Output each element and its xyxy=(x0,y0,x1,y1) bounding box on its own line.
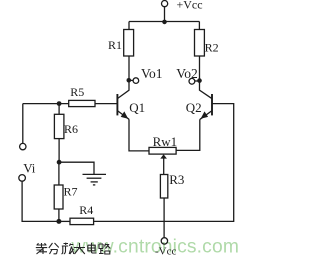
svg-text:Q1: Q1 xyxy=(129,100,145,115)
wire Q1 emitter drop xyxy=(129,119,149,151)
wire R7 top xyxy=(58,162,60,185)
resistor R1 xyxy=(124,30,134,57)
wire Q1 base row xyxy=(95,103,117,105)
svg-text:Vi: Vi xyxy=(23,160,36,175)
wire left drop to terminal xyxy=(22,104,24,144)
resistor R6 xyxy=(54,114,64,138)
potentiometer wiper arrow xyxy=(160,154,167,158)
svg-text:R5: R5 xyxy=(70,85,84,99)
svg-text:R1: R1 xyxy=(108,38,122,52)
svg-text:R3: R3 xyxy=(169,172,184,187)
node junction R6-R7 xyxy=(57,160,62,165)
caption 差分放大电路 (hand-drawn strokes) xyxy=(36,243,111,254)
char 大 xyxy=(74,243,85,254)
node Vo1 junction xyxy=(127,78,132,83)
wire Q2 emitter drop xyxy=(176,119,200,150)
node Vo2 terminal circle xyxy=(189,78,195,84)
svg-text:Vo1: Vo1 xyxy=(141,66,163,81)
wire Vo2 stub xyxy=(195,80,200,82)
potentiometer Rw1 xyxy=(149,147,176,154)
+Vcc terminal circle xyxy=(162,1,168,7)
wire left input row xyxy=(23,103,69,105)
wire Vcc stub xyxy=(164,7,166,22)
wire top rail xyxy=(129,21,199,23)
node junction top xyxy=(162,20,167,25)
wire R2 to Q2 collector xyxy=(200,56,212,98)
-Vcc terminal circle xyxy=(161,238,167,244)
svg-text:R2: R2 xyxy=(205,41,219,55)
wire R6 top xyxy=(58,104,60,115)
wire rail to R1 xyxy=(128,22,130,30)
node junction bottom left xyxy=(56,219,61,224)
svg-text:Rw1: Rw1 xyxy=(153,134,178,149)
wire to R4 xyxy=(59,220,70,222)
input terminal circle lower xyxy=(19,175,26,182)
svg-text:+Vcc: +Vcc xyxy=(177,0,203,12)
svg-text:R4: R4 xyxy=(79,203,93,217)
wire wiper to R3 xyxy=(163,158,165,175)
wire R3 bottom xyxy=(163,198,165,238)
char 放 xyxy=(62,243,74,254)
svg-text:R6: R6 xyxy=(64,122,78,136)
watermark www.cntronics.com xyxy=(71,236,240,257)
transistor Q1 emitter arrow xyxy=(121,111,129,118)
node Vo2 junction xyxy=(197,78,202,83)
transistor Q2 base bar xyxy=(211,94,213,115)
char 分 xyxy=(49,243,59,254)
transistor Q1 emitter xyxy=(118,111,129,119)
wire Vi terminal drop xyxy=(22,181,59,221)
transistor Q2 emitter arrow xyxy=(201,111,209,118)
wire to ground xyxy=(59,162,94,174)
resistor R7 xyxy=(54,185,63,209)
svg-text:R7: R7 xyxy=(64,184,78,198)
transistor Q1 base bar xyxy=(116,94,118,115)
resistor R5 xyxy=(69,100,95,106)
wire rail to R2 xyxy=(198,22,200,30)
wire Vo1 stub xyxy=(129,79,133,81)
input terminal circle upper xyxy=(20,143,26,149)
svg-text:Vo2: Vo2 xyxy=(176,66,198,81)
wire R1 to Q1 collector xyxy=(118,56,129,98)
resistor R4 xyxy=(70,218,94,224)
ground xyxy=(83,174,107,185)
resistor R3 xyxy=(160,175,167,199)
char 差 xyxy=(36,243,47,254)
svg-text:-Vcc: -Vcc xyxy=(155,246,176,258)
svg-text:Q2: Q2 xyxy=(186,100,202,115)
wire R6 bottom xyxy=(58,139,60,163)
resistor R2 xyxy=(195,30,205,57)
wire bottom rail to right riser xyxy=(94,104,234,222)
char 路 xyxy=(99,244,110,255)
char 电 xyxy=(88,243,97,253)
transistor Q2 emitter xyxy=(200,111,212,119)
node junction R6 top xyxy=(57,101,62,106)
wire R7 bottom xyxy=(58,209,60,221)
node Vo1 terminal circle xyxy=(133,78,139,84)
